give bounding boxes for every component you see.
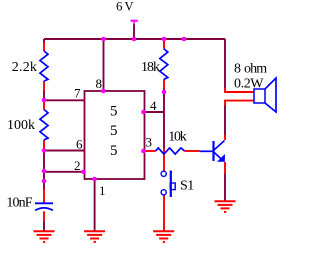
svg-text:V: V (125, 0, 134, 14)
svg-text:6: 6 (116, 0, 123, 14)
svg-text:10nF: 10nF (6, 195, 32, 210)
svg-text:4: 4 (150, 98, 157, 113)
svg-text:8: 8 (234, 62, 241, 77)
svg-text:6: 6 (76, 137, 83, 152)
svg-text:S1: S1 (180, 179, 194, 194)
svg-text:3: 3 (146, 135, 153, 150)
svg-text:0.2W: 0.2W (234, 77, 264, 92)
svg-text:7: 7 (74, 86, 81, 101)
svg-text:5: 5 (110, 104, 118, 120)
svg-text:2: 2 (74, 158, 81, 173)
svg-text:18k: 18k (141, 60, 160, 75)
svg-text:10k: 10k (168, 130, 187, 145)
svg-text:100k: 100k (7, 118, 35, 133)
svg-text:8: 8 (96, 76, 103, 91)
svg-text:1: 1 (99, 183, 106, 198)
svg-text:2.2k: 2.2k (12, 60, 37, 75)
svg-text:5: 5 (110, 123, 118, 139)
svg-text:5: 5 (110, 143, 118, 159)
svg-text:ohm: ohm (244, 62, 267, 77)
